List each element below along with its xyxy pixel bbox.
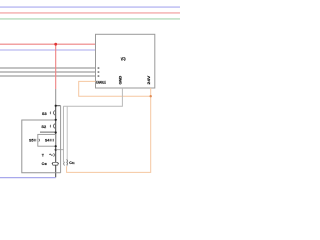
- wire main vertical black segment: [55, 106, 57, 178]
- wire enable (orange): [79, 81, 151, 96]
- wire bottom blue: [0, 177, 56, 179]
- node C41 branch junction: [55, 149, 57, 151]
- svg-text:GND: GND: [119, 75, 123, 85]
- relay block S5/S4 box: [38, 134, 56, 146]
- contact S5 terminal tick: [38, 139, 41, 142]
- wire link to cabinet edge: [56, 105, 61, 107]
- switch S3: [42, 111, 55, 116]
- svg-text:S5: S5: [29, 138, 34, 143]
- wire GND drop to C41: [66, 106, 68, 166]
- node block bottom junction: [55, 145, 57, 147]
- svg-text:S4: S4: [45, 138, 50, 143]
- capacitor C41: [64, 159, 75, 165]
- wire GND (gray): [63, 88, 122, 106]
- thermal contact T: [42, 153, 55, 157]
- wire red feed to VFD: [0, 43, 96, 45]
- pin label 1: [98, 67, 100, 69]
- switch S2: [41, 124, 54, 129]
- node S3 junction: [55, 119, 57, 121]
- svg-text:VFD: VFD: [121, 57, 126, 62]
- wire main vertical faded segment: [55, 89, 57, 106]
- wire blue neutral to VFD: [0, 49, 96, 51]
- wire signal gray 2: [0, 71, 96, 73]
- wire aux drop to C41 plate: [62, 106, 64, 162]
- node 24V junction: [150, 95, 152, 97]
- wire signal gray 1: [0, 67, 96, 69]
- contact S5: [29, 138, 36, 143]
- wire signal gray 3: [0, 75, 96, 77]
- wire C41 branch: [56, 149, 64, 151]
- node S2 junction: [55, 131, 57, 133]
- wire main vertical red segment: [55, 44, 57, 89]
- svg-text:ENABLE: ENABLE: [96, 81, 106, 85]
- pin label 2: [98, 71, 100, 73]
- contact S4: [45, 138, 52, 143]
- enclosure control box: [22, 120, 61, 173]
- contact S4 terminal tick: [52, 139, 55, 142]
- wire cabinet right edge: [60, 106, 62, 173]
- capacitor C40: [42, 162, 59, 166]
- svg-text:S2: S2: [41, 124, 47, 129]
- pin label 3: [98, 75, 100, 77]
- VFD drive U1: [96, 34, 155, 88]
- wire S2 row: [40, 131, 56, 133]
- node red tap: [54, 43, 57, 46]
- svg-text:S3: S3: [42, 111, 48, 116]
- wire bus L3 (green): [0, 18, 180, 20]
- svg-text:24V: 24V: [147, 74, 151, 84]
- node link junction: [55, 105, 57, 107]
- wire bus L2 (red): [0, 12, 180, 14]
- wire bus L1 (blue): [0, 6, 180, 8]
- wire 24V drop (orange): [67, 88, 151, 172]
